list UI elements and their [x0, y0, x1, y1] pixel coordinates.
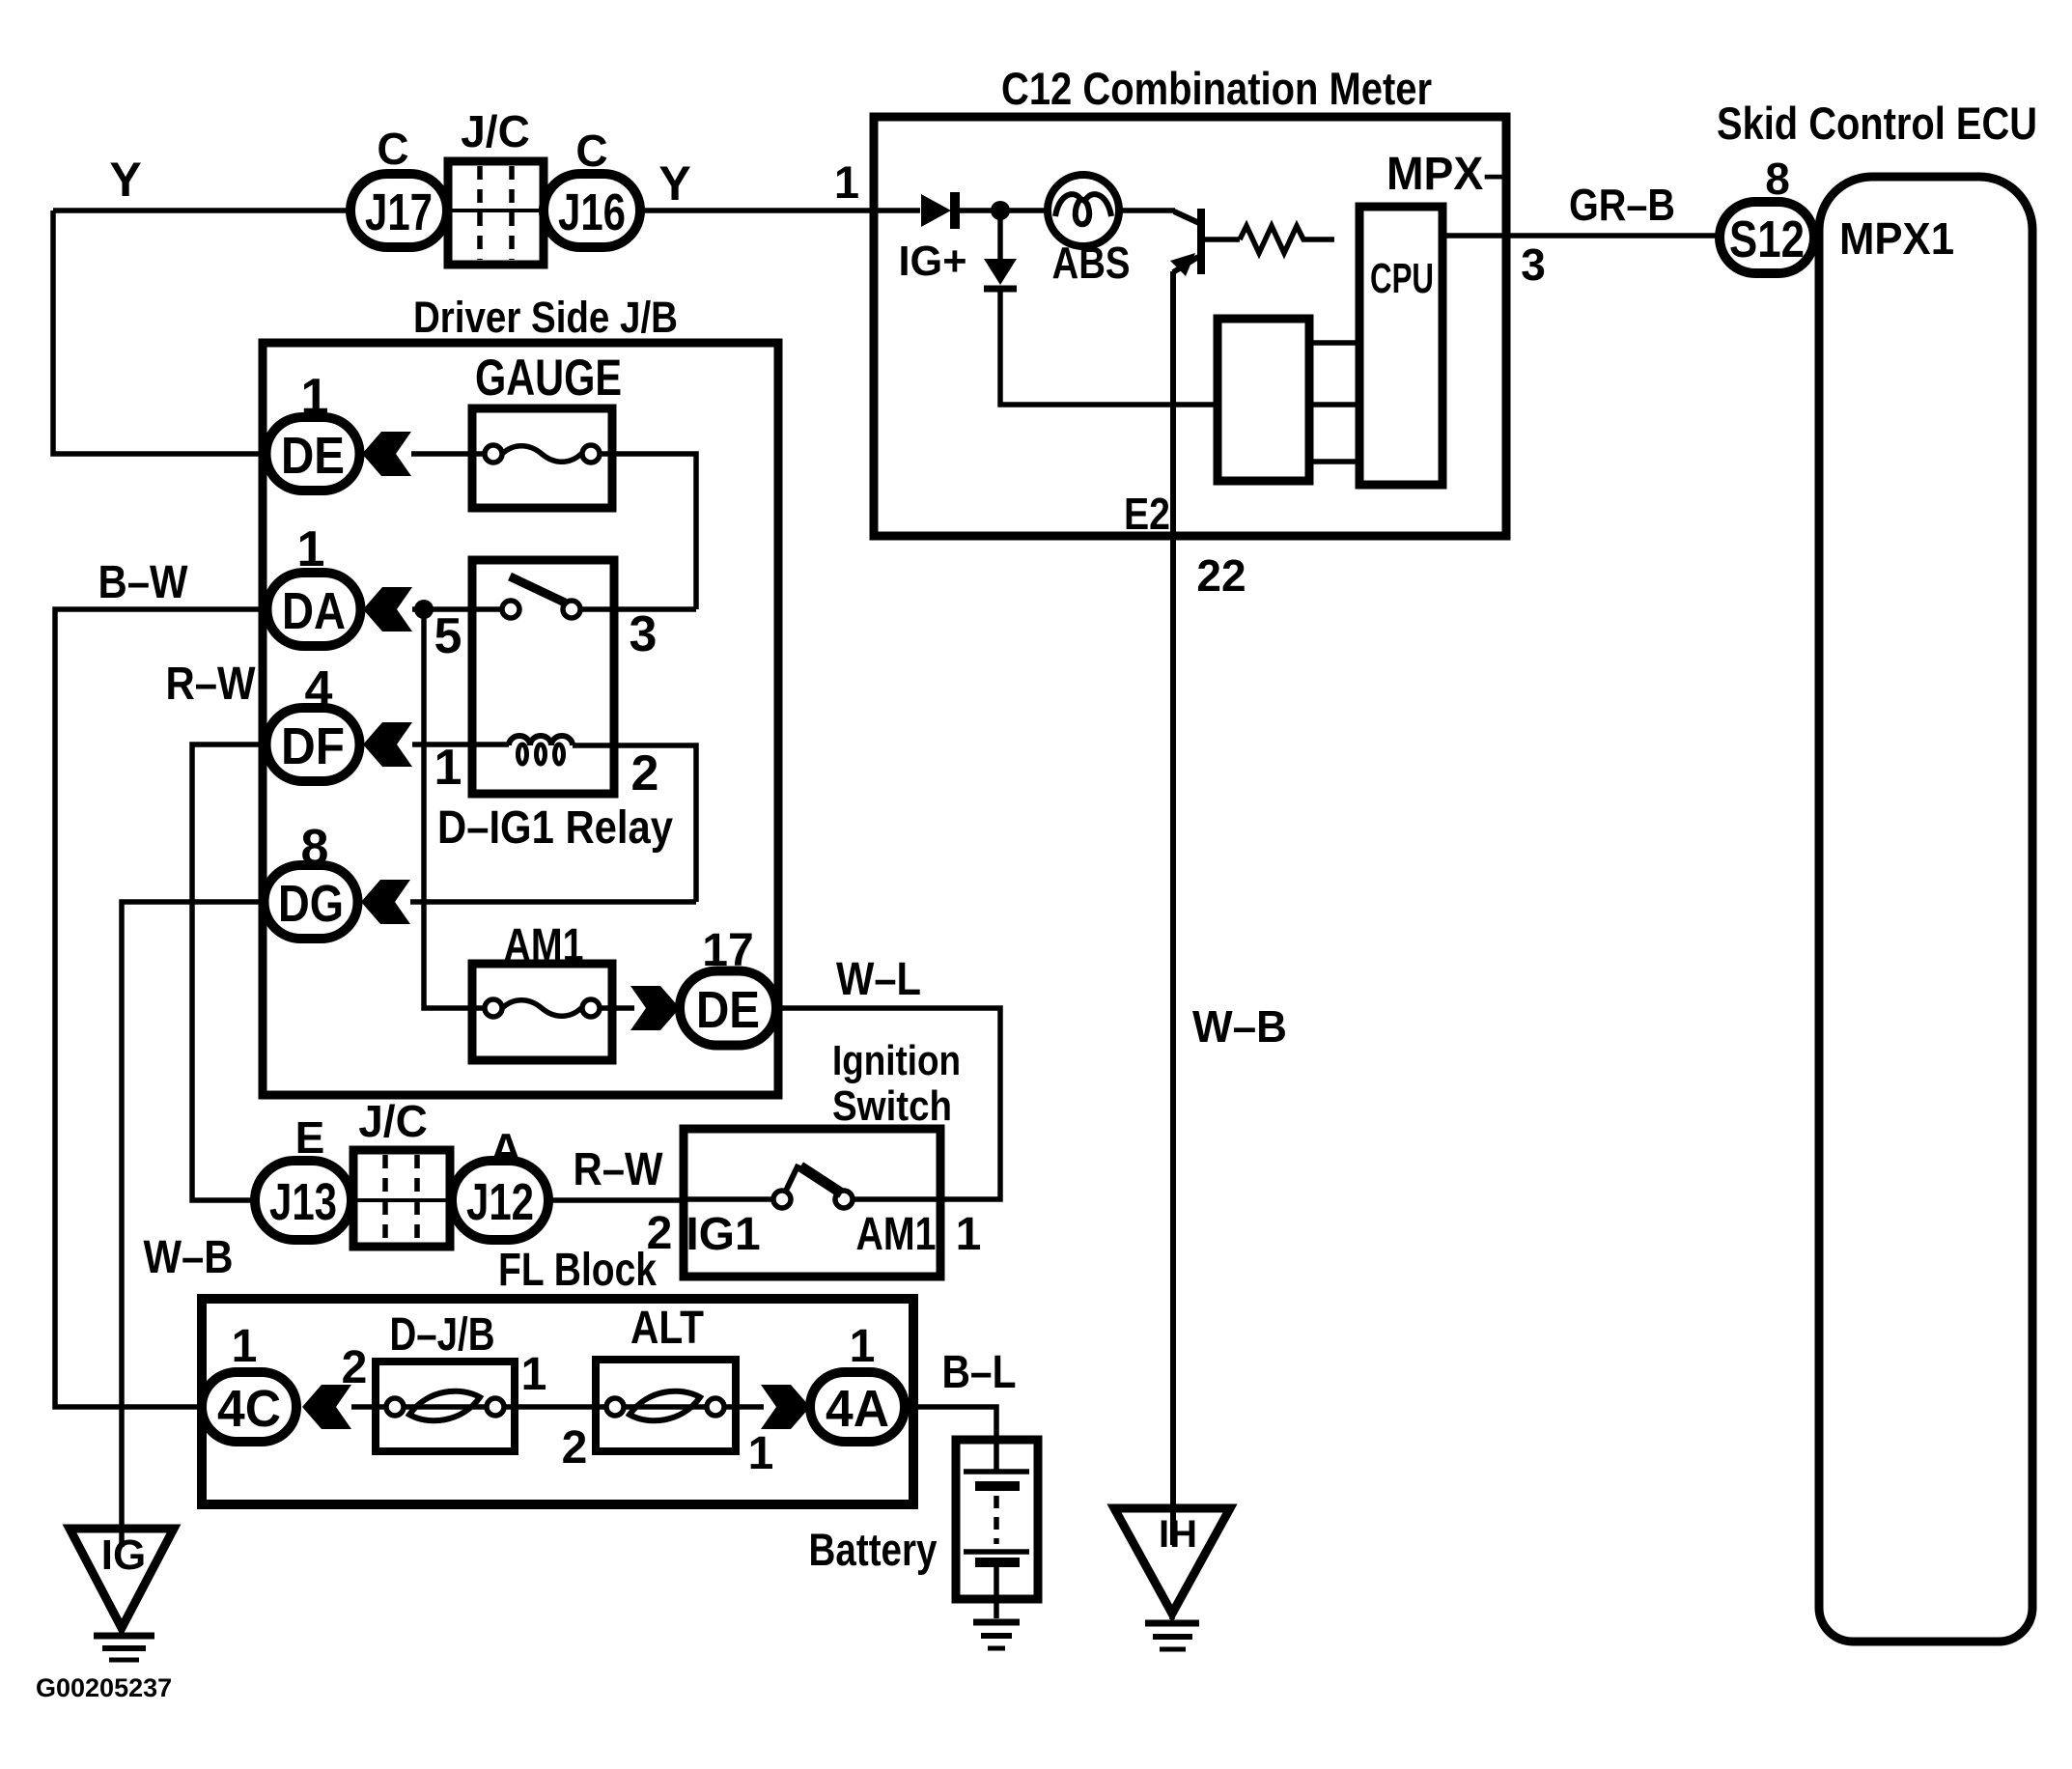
svg-text:A: A	[490, 1124, 521, 1174]
fuse GAUGE box	[472, 408, 612, 508]
svg-text:1: 1	[521, 1349, 547, 1400]
svg-text:1: 1	[434, 740, 462, 796]
connector DF	[266, 708, 360, 781]
connector J13	[255, 1161, 351, 1240]
wire base to resistor	[1204, 237, 1240, 242]
junction connector J/C bottom	[353, 1150, 450, 1247]
svg-text:Driver Side J/B: Driver Side J/B	[413, 293, 678, 342]
diode IG+ series	[921, 192, 955, 229]
junction node 5 dot	[414, 600, 434, 619]
svg-text:IG: IG	[101, 1531, 146, 1579]
svg-text:D–J/B: D–J/B	[390, 1309, 495, 1361]
wire GR-B from CPU to S12	[1442, 233, 1720, 239]
wire arrow to D-J/B fuse	[351, 1404, 376, 1410]
connector J12	[452, 1161, 548, 1240]
svg-text:J16: J16	[558, 183, 626, 241]
svg-text:ALT: ALT	[630, 1303, 704, 1354]
svg-text:IH: IH	[1159, 1513, 1197, 1556]
diode shunt down	[984, 259, 1017, 289]
svg-text:J/C: J/C	[358, 1096, 428, 1146]
svg-text:Y: Y	[109, 153, 141, 207]
svg-text:J/C: J/C	[461, 106, 530, 156]
svg-text:IG+: IG+	[899, 238, 967, 285]
svg-text:CPU: CPU	[1370, 255, 1434, 302]
svg-text:22: 22	[1196, 550, 1246, 601]
wire relay pin3	[614, 606, 696, 612]
connector 4C	[202, 1372, 296, 1442]
svg-text:DA: DA	[282, 582, 346, 640]
svg-text:8: 8	[1765, 154, 1790, 204]
arrow into 4A	[761, 1385, 810, 1429]
svg-text:E2: E2	[1124, 489, 1170, 539]
relay D-IG1 box	[472, 560, 614, 794]
svg-text:1: 1	[834, 156, 859, 208]
meter internal block	[1218, 319, 1309, 481]
driver side J/B box	[263, 343, 778, 1095]
svg-text:IG1: IG1	[686, 1209, 760, 1260]
svg-text:MPX1: MPX1	[1839, 213, 1954, 264]
wire DA to relay	[412, 606, 472, 612]
svg-text:ABS: ABS	[1052, 238, 1131, 288]
fusible link D-J/B box	[376, 1362, 515, 1451]
svg-text:2: 2	[342, 1342, 368, 1393]
ignition switch box	[684, 1129, 940, 1277]
junction connector J/C top	[448, 161, 544, 265]
wire coil pin2 to DG loop	[573, 745, 696, 902]
svg-text:5: 5	[434, 608, 462, 664]
svg-text:3: 3	[1521, 239, 1546, 290]
wire E2 / W-B vertical	[1170, 271, 1176, 1545]
ground IH bars	[1145, 1614, 1199, 1649]
wire J12 to ignition switch	[548, 1197, 684, 1203]
svg-text:AM1: AM1	[856, 1209, 937, 1260]
svg-text:E: E	[295, 1112, 325, 1163]
wire D-J/B to ALT	[515, 1404, 596, 1410]
svg-text:DE: DE	[696, 981, 760, 1039]
transistor Q collector/bar/emitter	[1170, 209, 1201, 276]
wire node5 vertical to AM1 fuse	[424, 609, 472, 1008]
svg-text:D–IG1 Relay: D–IG1 Relay	[437, 802, 673, 854]
svg-text:J12: J12	[466, 1173, 534, 1231]
svg-text:DE: DE	[281, 427, 345, 485]
arrow into DA	[363, 587, 412, 632]
svg-text:1: 1	[850, 1321, 876, 1372]
connector DA	[267, 573, 361, 646]
wire GAUGE fuse to relay pin3	[612, 454, 696, 609]
arrow into DE	[362, 432, 411, 476]
svg-text:S12: S12	[1729, 211, 1805, 268]
wire DG to W-B ground	[122, 902, 264, 1547]
svg-text:W–B: W–B	[144, 1232, 234, 1283]
svg-text:Ignition: Ignition	[832, 1037, 961, 1084]
svg-text:GR–B: GR–B	[1569, 180, 1675, 230]
wire diode to lamp	[959, 208, 1050, 213]
wire DG row	[410, 899, 696, 905]
arrow into DG	[361, 880, 410, 924]
svg-text:Switch: Switch	[832, 1082, 952, 1130]
resistor	[1240, 226, 1334, 253]
wire down from dot	[997, 211, 1003, 259]
connector DG	[265, 865, 358, 939]
svg-text:Battery: Battery	[809, 1524, 938, 1575]
svg-text:DG: DG	[278, 875, 344, 933]
arrow into DE17	[630, 986, 680, 1030]
svg-text:3: 3	[630, 606, 658, 662]
relay coil	[509, 736, 573, 745]
CPU block	[1359, 207, 1442, 485]
wire diode down to E2 row	[1000, 291, 1218, 405]
ignition switch contacts	[684, 1165, 940, 1208]
connector 4A	[810, 1372, 905, 1442]
relay switch contacts	[472, 576, 614, 618]
svg-text:4C: 4C	[217, 1380, 281, 1438]
svg-text:R–W: R–W	[574, 1144, 664, 1195]
svg-text:2: 2	[631, 745, 659, 801]
arrow into DF	[363, 722, 412, 767]
wire DF to relay coil	[412, 742, 509, 747]
ground battery	[973, 1622, 1020, 1648]
connector DE pin1	[266, 417, 360, 491]
svg-text:B–L: B–L	[942, 1347, 1017, 1398]
svg-text:DF: DF	[281, 717, 345, 775]
svg-text:R–W: R–W	[166, 659, 257, 710]
svg-text:1: 1	[956, 1209, 982, 1260]
svg-text:Y: Y	[658, 156, 690, 211]
lamp ABS	[1048, 175, 1119, 246]
ground IG bars	[94, 1628, 154, 1660]
skid control ECU box	[1819, 177, 2032, 1642]
svg-text:1: 1	[748, 1428, 774, 1479]
wire W-L to ignition switch	[776, 1008, 1000, 1199]
wire meter input	[874, 208, 920, 213]
ground IG triangle	[70, 1529, 174, 1628]
svg-text:C: C	[575, 126, 607, 176]
fuse AM1 box	[472, 964, 612, 1060]
junction node dot	[991, 201, 1010, 220]
wire AM1 fuse to DE17	[612, 1005, 634, 1011]
svg-text:2: 2	[562, 1422, 588, 1474]
battery box	[956, 1440, 1038, 1599]
connector DE pin17	[680, 971, 776, 1046]
arrow into 4C	[302, 1385, 351, 1429]
ground IH triangle	[1114, 1508, 1230, 1614]
svg-text:MPX–: MPX–	[1386, 149, 1508, 200]
combination meter box	[874, 117, 1506, 536]
fusible link ALT box	[596, 1360, 736, 1451]
svg-text:4A: 4A	[826, 1380, 889, 1438]
connector J17	[350, 174, 447, 247]
svg-text:W–L: W–L	[836, 954, 921, 1005]
wire B-W	[55, 609, 266, 1407]
svg-text:C: C	[377, 124, 408, 174]
battery cells	[964, 1472, 1029, 1618]
svg-text:FL Block: FL Block	[498, 1245, 657, 1296]
wire Y left vertical down to DE	[53, 211, 266, 454]
wire R-W from J13 up to DF	[192, 744, 267, 1200]
connector J16	[544, 174, 640, 247]
wire DE to GAUGE fuse	[411, 451, 472, 457]
svg-text:W–B: W–B	[1192, 1001, 1287, 1052]
svg-text:C12 Combination Meter: C12 Combination Meter	[1001, 63, 1432, 114]
block to CPU link wires	[1309, 343, 1359, 462]
svg-text:GAUGE: GAUGE	[475, 350, 622, 407]
wire Y top horizontal	[53, 208, 874, 213]
svg-text:B–W: B–W	[98, 557, 189, 608]
wire ALT to 4A arrow	[736, 1404, 764, 1410]
connector S12	[1720, 202, 1814, 273]
wire lamp to transistor	[1116, 208, 1175, 213]
svg-text:1: 1	[232, 1321, 258, 1372]
svg-text:J13: J13	[269, 1173, 337, 1231]
FL block box	[202, 1299, 913, 1504]
svg-text:Skid Control ECU: Skid Control ECU	[1717, 98, 2037, 149]
svg-text:G00205237: G00205237	[36, 1673, 172, 1702]
svg-text:J17: J17	[365, 183, 433, 241]
wire 4A to battery	[905, 1407, 996, 1471]
